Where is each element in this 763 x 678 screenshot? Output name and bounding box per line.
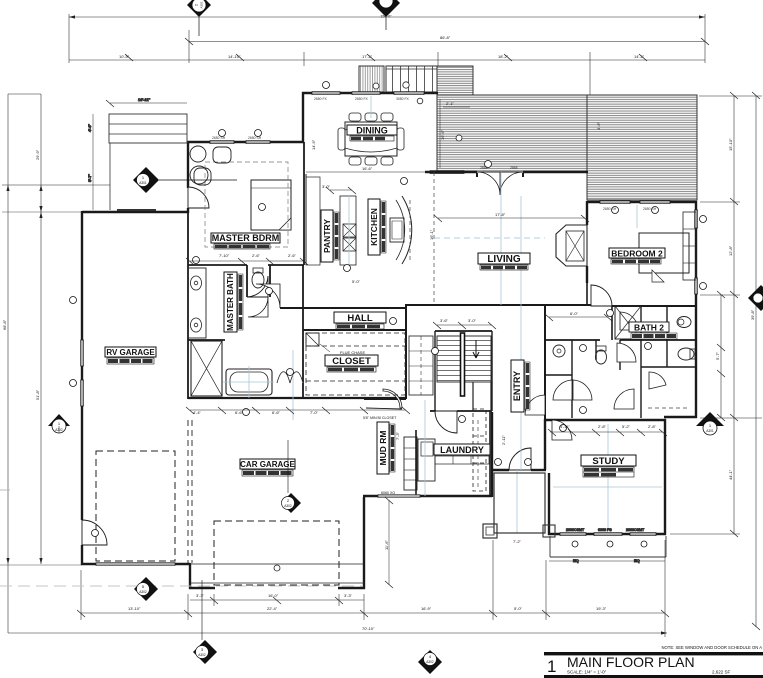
bedroom2 closet shelves — [683, 212, 696, 280]
section triangle near study — [696, 412, 724, 435]
stair center rail — [461, 333, 465, 396]
svg-text:A301: A301 — [139, 181, 147, 185]
mud east wall / laundry west — [415, 430, 417, 496]
section bubble below car garage — [193, 580, 217, 664]
section diamond right edge — [748, 285, 763, 311]
car garage east wall — [363, 497, 365, 589]
svg-text:6060 XO: 6060 XO — [381, 491, 395, 495]
window master north 2 — [246, 141, 270, 144]
blue line kitchen — [348, 196, 350, 265]
blue centerline study — [607, 424, 609, 530]
bath2 divider — [640, 306, 642, 340]
label KITCHEN vertical — [368, 199, 386, 255]
blue vertical line mud — [424, 400, 426, 496]
dining north wall — [302, 92, 438, 94]
second dimension line 86'-8 — [185, 30, 709, 63]
study south windows — [560, 533, 586, 536]
hall dim line — [548, 429, 667, 436]
right vertical dims — [670, 92, 762, 630]
svg-text:16'-11": 16'-11" — [138, 97, 151, 102]
stair down arrow — [473, 340, 479, 358]
blue centerline tub — [248, 366, 250, 398]
entry east wall upper — [544, 306, 546, 419]
bath2 toilet top right — [677, 317, 691, 328]
mud north wall — [364, 398, 406, 400]
bath dim line — [186, 407, 410, 414]
sitting chairs master — [190, 146, 206, 162]
house west side door arc — [82, 520, 107, 545]
entry front wall west of door — [492, 469, 509, 471]
bedroom2 west wall — [586, 201, 588, 225]
garage centerline mark — [286, 493, 301, 513]
tub master — [226, 369, 272, 395]
french door living — [477, 172, 523, 195]
house west wall below door — [81, 545, 83, 565]
svg-text:16'-9": 16'-9" — [421, 606, 432, 611]
laundry counter west — [418, 439, 435, 481]
section diamond porch — [133, 167, 237, 193]
svg-text:16'-0": 16'-0" — [268, 593, 279, 598]
wc toilet master — [252, 272, 264, 288]
west wing north wall — [82, 211, 189, 213]
study door arc — [552, 420, 572, 440]
hall closet sink — [553, 345, 565, 357]
laundry dashed cabinets east — [473, 409, 486, 491]
bath2 shower — [615, 306, 641, 339]
svg-text:3'-0": 3'-0" — [468, 318, 477, 323]
hall wc toilet — [596, 350, 607, 364]
stair dims — [433, 318, 496, 329]
master vanity counter — [188, 268, 206, 338]
mud to garage door arc — [383, 389, 402, 408]
svg-text:10'-5": 10'-5" — [119, 54, 130, 59]
svg-text:86'-8": 86'-8" — [440, 35, 451, 40]
exterior stair flight fine — [359, 66, 384, 92]
rv garage south wall — [81, 563, 190, 565]
svg-text:70'-10": 70'-10" — [362, 626, 375, 631]
master bdrm south wall — [188, 264, 247, 266]
hall closet dashed — [648, 407, 690, 409]
closet shelving dashed — [306, 333, 405, 395]
window bedroom2 north — [600, 201, 630, 204]
kitchen dashed upper cabinets — [409, 200, 411, 262]
label MUD RM vertical — [363, 416, 397, 474]
title block — [544, 645, 763, 678]
hall wing walls — [545, 374, 572, 376]
section bubble bottom center — [418, 650, 442, 674]
svg-text:SCALE: 1/4" = 1'-0": SCALE: 1/4" = 1'-0" — [567, 670, 607, 675]
svg-text:3'-0": 3'-0" — [322, 184, 331, 189]
svg-text:4'-11": 4'-11" — [560, 424, 570, 429]
rv parking dashed — [96, 451, 175, 561]
label HALL — [334, 312, 386, 329]
svg-text:2650 SH: 2650 SH — [603, 207, 617, 211]
svg-text:14'-2": 14'-2" — [634, 54, 645, 59]
windows east wall bedroom2 — [695, 210, 698, 228]
svg-text:2660CSMT: 2660CSMT — [626, 528, 645, 532]
svg-text:19'-3": 19'-3" — [596, 606, 607, 611]
svg-text:16'-6": 16'-6" — [362, 166, 373, 171]
svg-text:22'-4": 22'-4" — [267, 606, 278, 611]
label DINING — [347, 125, 397, 141]
car garage south wall east pier — [338, 587, 365, 589]
svg-text:6'-6": 6'-6" — [272, 410, 281, 415]
laundry north wall — [430, 410, 436, 412]
svg-text:FLUE CHASE: FLUE CHASE — [340, 350, 365, 355]
svg-text:12'-8": 12'-8" — [728, 245, 733, 256]
svg-text:NOTE: SEE WINDOW AND DOOR SCHE: NOTE: SEE WINDOW AND DOOR SCHEDULE ON A — [661, 645, 762, 650]
svg-text:2'-6": 2'-6" — [252, 253, 261, 258]
fireplace — [556, 225, 587, 266]
svg-text:14'-9": 14'-9" — [311, 139, 316, 150]
svg-text:PANTRY: PANTRY — [322, 219, 332, 253]
front patio steps top-left — [109, 114, 187, 143]
svg-text:3'-6": 3'-6" — [440, 318, 449, 323]
house west wall upper — [81, 211, 83, 520]
window dining north 2 — [352, 92, 380, 95]
svg-text:KITCHEN: KITCHEN — [369, 208, 379, 246]
svg-text:A301: A301 — [200, 1, 204, 8]
bath south band / closet north — [188, 339, 225, 341]
bath2 north wall — [611, 306, 613, 340]
interior dimension annotations — [186, 139, 667, 588]
stair lower landing rail — [472, 382, 474, 411]
blue centerline dining — [370, 96, 372, 118]
svg-text:29'-9": 29'-9" — [35, 149, 40, 160]
hall door to master corridor — [256, 284, 280, 308]
stairwell top wall — [435, 330, 492, 332]
garage door dashed — [214, 521, 339, 585]
master suite / rv garage wall — [187, 213, 189, 399]
dashed features — [0, 172, 690, 586]
study south wall — [548, 533, 666, 535]
svg-text:2650 FX: 2650 FX — [314, 97, 328, 101]
svg-text:HALL: HALL — [347, 313, 373, 324]
car garage south wall west pier — [189, 587, 215, 589]
entry to hall door arc — [525, 395, 545, 415]
svg-text:14'-10": 14'-10" — [228, 54, 241, 59]
wc door arc — [248, 297, 268, 317]
left vertical dims — [0, 94, 110, 633]
svg-text:A302: A302 — [139, 590, 147, 594]
svg-text:ENTRY: ENTRY — [512, 371, 522, 401]
svg-text:6'-0": 6'-0" — [570, 311, 579, 316]
svg-text:A302: A302 — [55, 428, 63, 432]
svg-text:2650 FX: 2650 FX — [355, 97, 369, 101]
bath/closet dividing wall — [302, 265, 304, 330]
closet/garage south wall — [188, 397, 406, 399]
svg-text:5'-2": 5'-2" — [622, 424, 631, 429]
label LIVING — [478, 253, 530, 270]
svg-text:2'-6": 2'-6" — [288, 253, 297, 258]
door swing arcs — [82, 187, 666, 545]
svg-text:3'-3": 3'-3" — [344, 593, 353, 598]
svg-text:3'-3": 3'-3" — [196, 593, 205, 598]
fireplace to bedroom wall — [586, 283, 588, 306]
room labels — [105, 125, 677, 477]
master/kitchen east wall — [303, 142, 305, 265]
svg-text:7'-3": 7'-3" — [395, 431, 400, 440]
front door arc — [509, 448, 531, 470]
bedroom2 west wall lower — [586, 266, 588, 283]
window living south (deck wall) 1 — [430, 171, 464, 174]
blue centerline living v1 — [500, 172, 502, 305]
furniture and fixtures — [188, 113, 696, 498]
wall seg under deck between living door and bedroom — [425, 171, 477, 173]
entry porch — [494, 473, 545, 533]
hall north wall — [280, 307, 406, 309]
living dim line — [434, 215, 589, 222]
svg-text:7'-2": 7'-2" — [513, 539, 522, 544]
svg-text:2650 SH: 2650 SH — [248, 136, 262, 140]
closet double doors left — [553, 380, 592, 400]
interior staircase — [435, 331, 492, 411]
bath2 toilet — [678, 348, 694, 360]
bottom dimension lines — [8, 540, 669, 637]
stairwell east wall — [491, 331, 493, 411]
master ceiling dashed — [205, 162, 288, 247]
garage jog wall — [189, 563, 191, 589]
entry west wall — [491, 412, 493, 497]
dining west wall — [302, 92, 304, 143]
laundry washer dryer — [435, 456, 489, 464]
svg-text:MAIN FLOOR PLAN: MAIN FLOOR PLAN — [567, 654, 695, 670]
dining bottom dim line — [306, 171, 435, 173]
section diamond top 1 — [187, 0, 211, 36]
svg-text:51'-8": 51'-8" — [35, 389, 40, 400]
hall south wall — [303, 329, 406, 331]
master bdrm north wall — [187, 141, 304, 143]
svg-text:13'-10": 13'-10" — [128, 606, 141, 611]
svg-text:2868: 2868 — [510, 166, 518, 170]
svg-text:2868: 2868 — [480, 166, 488, 170]
blue centerline living v2 — [520, 196, 522, 470]
interior walls — [188, 142, 697, 496]
svg-text:2'-1": 2'-1" — [446, 101, 455, 106]
deck plank hatch right part — [587, 95, 697, 200]
porches and patios — [87, 97, 666, 563]
bedroom2 door arc — [591, 285, 612, 306]
svg-text:5'-0": 5'-0" — [514, 606, 523, 611]
svg-text:44'-1": 44'-1" — [728, 469, 733, 480]
svg-text:11'-6": 11'-6" — [384, 540, 389, 550]
svg-text:4'-6": 4'-6" — [87, 123, 92, 132]
laundry dashed closet — [477, 420, 479, 490]
hall door NE — [617, 343, 636, 362]
svg-text:7'-10": 7'-10" — [219, 253, 230, 258]
window master north 1 — [210, 141, 234, 144]
blue line bedroom2 — [636, 205, 638, 228]
section bubble left rv — [48, 414, 70, 433]
svg-text:MASTER BDRM: MASTER BDRM — [212, 233, 280, 243]
svg-text:17'-2": 17'-2" — [362, 54, 373, 59]
mud window break — [378, 495, 420, 498]
shower master — [191, 341, 222, 396]
laundry east wall — [489, 411, 491, 496]
deck post circles — [373, 83, 379, 89]
closet double doors — [277, 372, 303, 383]
svg-text:3'-6": 3'-6" — [596, 121, 601, 130]
interior staircase treads — [437, 336, 491, 382]
label BEDROOM 2 — [609, 248, 665, 264]
label BATH 2 — [629, 322, 677, 339]
bedroom2 north wall — [587, 201, 697, 203]
label CLOSET — [325, 355, 378, 372]
svg-text:150'-0": 150'-0" — [380, 15, 392, 19]
svg-text:A302: A302 — [426, 660, 434, 664]
third dimension line segments — [69, 52, 705, 97]
bath2 door arc — [620, 312, 638, 330]
door/window tag circles — [70, 82, 707, 548]
svg-text:6'-6": 6'-6" — [235, 410, 244, 415]
svg-text:LAUNDRY: LAUNDRY — [440, 445, 484, 455]
svg-text:A302: A302 — [198, 653, 206, 657]
svg-text:MUD RM: MUD RM — [378, 431, 388, 466]
master west wall lower below patio door — [187, 208, 189, 213]
svg-text:6060 FS: 6060 FS — [598, 528, 612, 532]
label LAUNDRY — [434, 444, 490, 455]
svg-text:DINING: DINING — [356, 126, 388, 136]
dim row under master bdrm — [190, 259, 307, 261]
master bath door arc — [247, 276, 268, 297]
svg-text:2'-8": 2'-8" — [648, 424, 657, 429]
svg-text:2660CSMT: 2660CSMT — [566, 528, 585, 532]
bedroom2 bed — [639, 233, 689, 273]
pantry shelves label area — [306, 177, 320, 265]
built-in closet cabinets — [409, 336, 433, 395]
entry east wall to study — [544, 419, 546, 470]
svg-text:RV GARAGE: RV GARAGE — [106, 348, 155, 357]
deck plank hatch main left part — [437, 95, 587, 172]
label ENTRY vertical — [511, 360, 530, 412]
svg-text:A302: A302 — [284, 504, 292, 508]
svg-text:16'-1": 16'-1" — [429, 229, 434, 240]
study porch — [550, 556, 666, 558]
mud/laundry south wall — [363, 495, 492, 497]
svg-text:BEDROOM 2: BEDROOM 2 — [611, 249, 663, 259]
svg-text:4'-4": 4'-4" — [193, 410, 202, 415]
title bars — [544, 652, 763, 655]
blue vertical closet — [292, 350, 294, 420]
master west wall upper — [187, 141, 189, 188]
label MASTER BDRM — [211, 233, 280, 249]
svg-text:EQ: EQ — [634, 558, 640, 563]
svg-text:2'-11": 2'-11" — [501, 435, 506, 445]
windows west wall rv garage — [81, 340, 84, 366]
svg-text:7'-0": 7'-0" — [310, 410, 319, 415]
window size labels — [212, 97, 657, 211]
flue chase box — [306, 333, 319, 346]
deck notch upper left — [437, 66, 473, 95]
top overall dimension line — [69, 14, 705, 63]
rv/car garage opening dashed — [187, 420, 189, 563]
stairwell west wall — [434, 331, 436, 411]
svg-text:68'-8": 68'-8" — [2, 319, 7, 330]
section bubble rv door — [134, 577, 158, 601]
svg-text:3050 FX: 3050 FX — [396, 97, 410, 101]
deck interior dims — [440, 99, 604, 390]
deck with plank hatch — [359, 66, 697, 390]
linen door right — [649, 372, 666, 389]
corridor dim — [545, 314, 612, 321]
label MASTER BATH vertical — [224, 272, 243, 332]
dining/living door from deck stairs — [203, 398, 205, 400]
svg-text:17'-8": 17'-8" — [495, 212, 506, 217]
kitchen counter west — [340, 196, 356, 265]
hall door to study corridor — [614, 389, 634, 409]
living west wall (kitchen boundary lower) — [405, 304, 407, 399]
svg-text:BATH 2: BATH 2 — [634, 323, 664, 333]
dining chairs bottom — [349, 157, 361, 165]
svg-text:2650 SH: 2650 SH — [643, 207, 657, 211]
label STUDY — [581, 455, 636, 477]
study west wall lower — [548, 473, 550, 535]
master bed — [251, 180, 291, 230]
svg-text:MASTER BATH: MASTER BATH — [226, 273, 235, 331]
window symbols — [81, 92, 698, 536]
svg-text:1: 1 — [547, 657, 556, 676]
blue centerlines — [223, 96, 662, 533]
house east wall — [695, 201, 697, 418]
label RV GARAGE — [105, 347, 156, 364]
kitchen/pantry west wall — [305, 174, 307, 265]
entry front wall east of door — [531, 469, 546, 471]
garage door header — [190, 563, 364, 565]
svg-text:CLOSET: CLOSET — [332, 356, 371, 367]
svg-text:5'-0": 5'-0" — [352, 279, 361, 284]
svg-text:2650 SH: 2650 SH — [212, 136, 226, 140]
living south transition wall — [406, 304, 612, 306]
svg-text:EQ: EQ — [573, 558, 579, 563]
east wing south wall — [664, 416, 697, 418]
study north wall — [544, 419, 666, 421]
svg-text:18'-2": 18'-2" — [498, 54, 509, 59]
svg-text:8'-7": 8'-7" — [87, 173, 92, 182]
laundry door arc — [435, 411, 457, 433]
bedroom2 south wall — [612, 305, 697, 307]
svg-text:LIVING: LIVING — [487, 254, 521, 265]
property gray dashed line left — [0, 585, 362, 587]
closet west wall — [302, 330, 304, 397]
label PANTRY vertical — [321, 210, 339, 262]
study east wall — [664, 419, 666, 535]
svg-text:16'-6": 16'-6" — [440, 129, 445, 140]
svg-text:5'8" MIN BI CLOSET: 5'8" MIN BI CLOSET — [363, 416, 397, 420]
section diamond top 2 — [372, 0, 400, 30]
svg-text:2,622 SF: 2,622 SF — [712, 670, 731, 675]
master patio door arc — [188, 187, 209, 208]
exterior stair flight treads — [386, 66, 437, 92]
svg-text:STUDY: STUDY — [592, 456, 625, 467]
mud lockers — [404, 437, 417, 490]
svg-text:39'-8": 39'-8" — [750, 309, 755, 320]
window dining north 3 — [394, 92, 424, 95]
svg-text:A301: A301 — [706, 429, 714, 433]
wc east / corridor wall — [269, 265, 271, 297]
svg-text:15'-10": 15'-10" — [728, 138, 733, 151]
bath2 south wall — [545, 339, 600, 341]
kitchen island curved — [402, 196, 412, 264]
label CAR GARAGE — [240, 459, 295, 476]
window dining north 1 — [312, 92, 340, 95]
master bdrm dim line — [186, 258, 308, 265]
dining chairs top — [349, 113, 361, 121]
blue centerline entry — [516, 470, 518, 533]
svg-text:2'-8": 2'-8" — [598, 424, 607, 429]
svg-text:CAR GARAGE: CAR GARAGE — [240, 460, 295, 469]
svg-text:5'-7": 5'-7" — [715, 351, 720, 360]
exterior walls — [81, 92, 697, 589]
